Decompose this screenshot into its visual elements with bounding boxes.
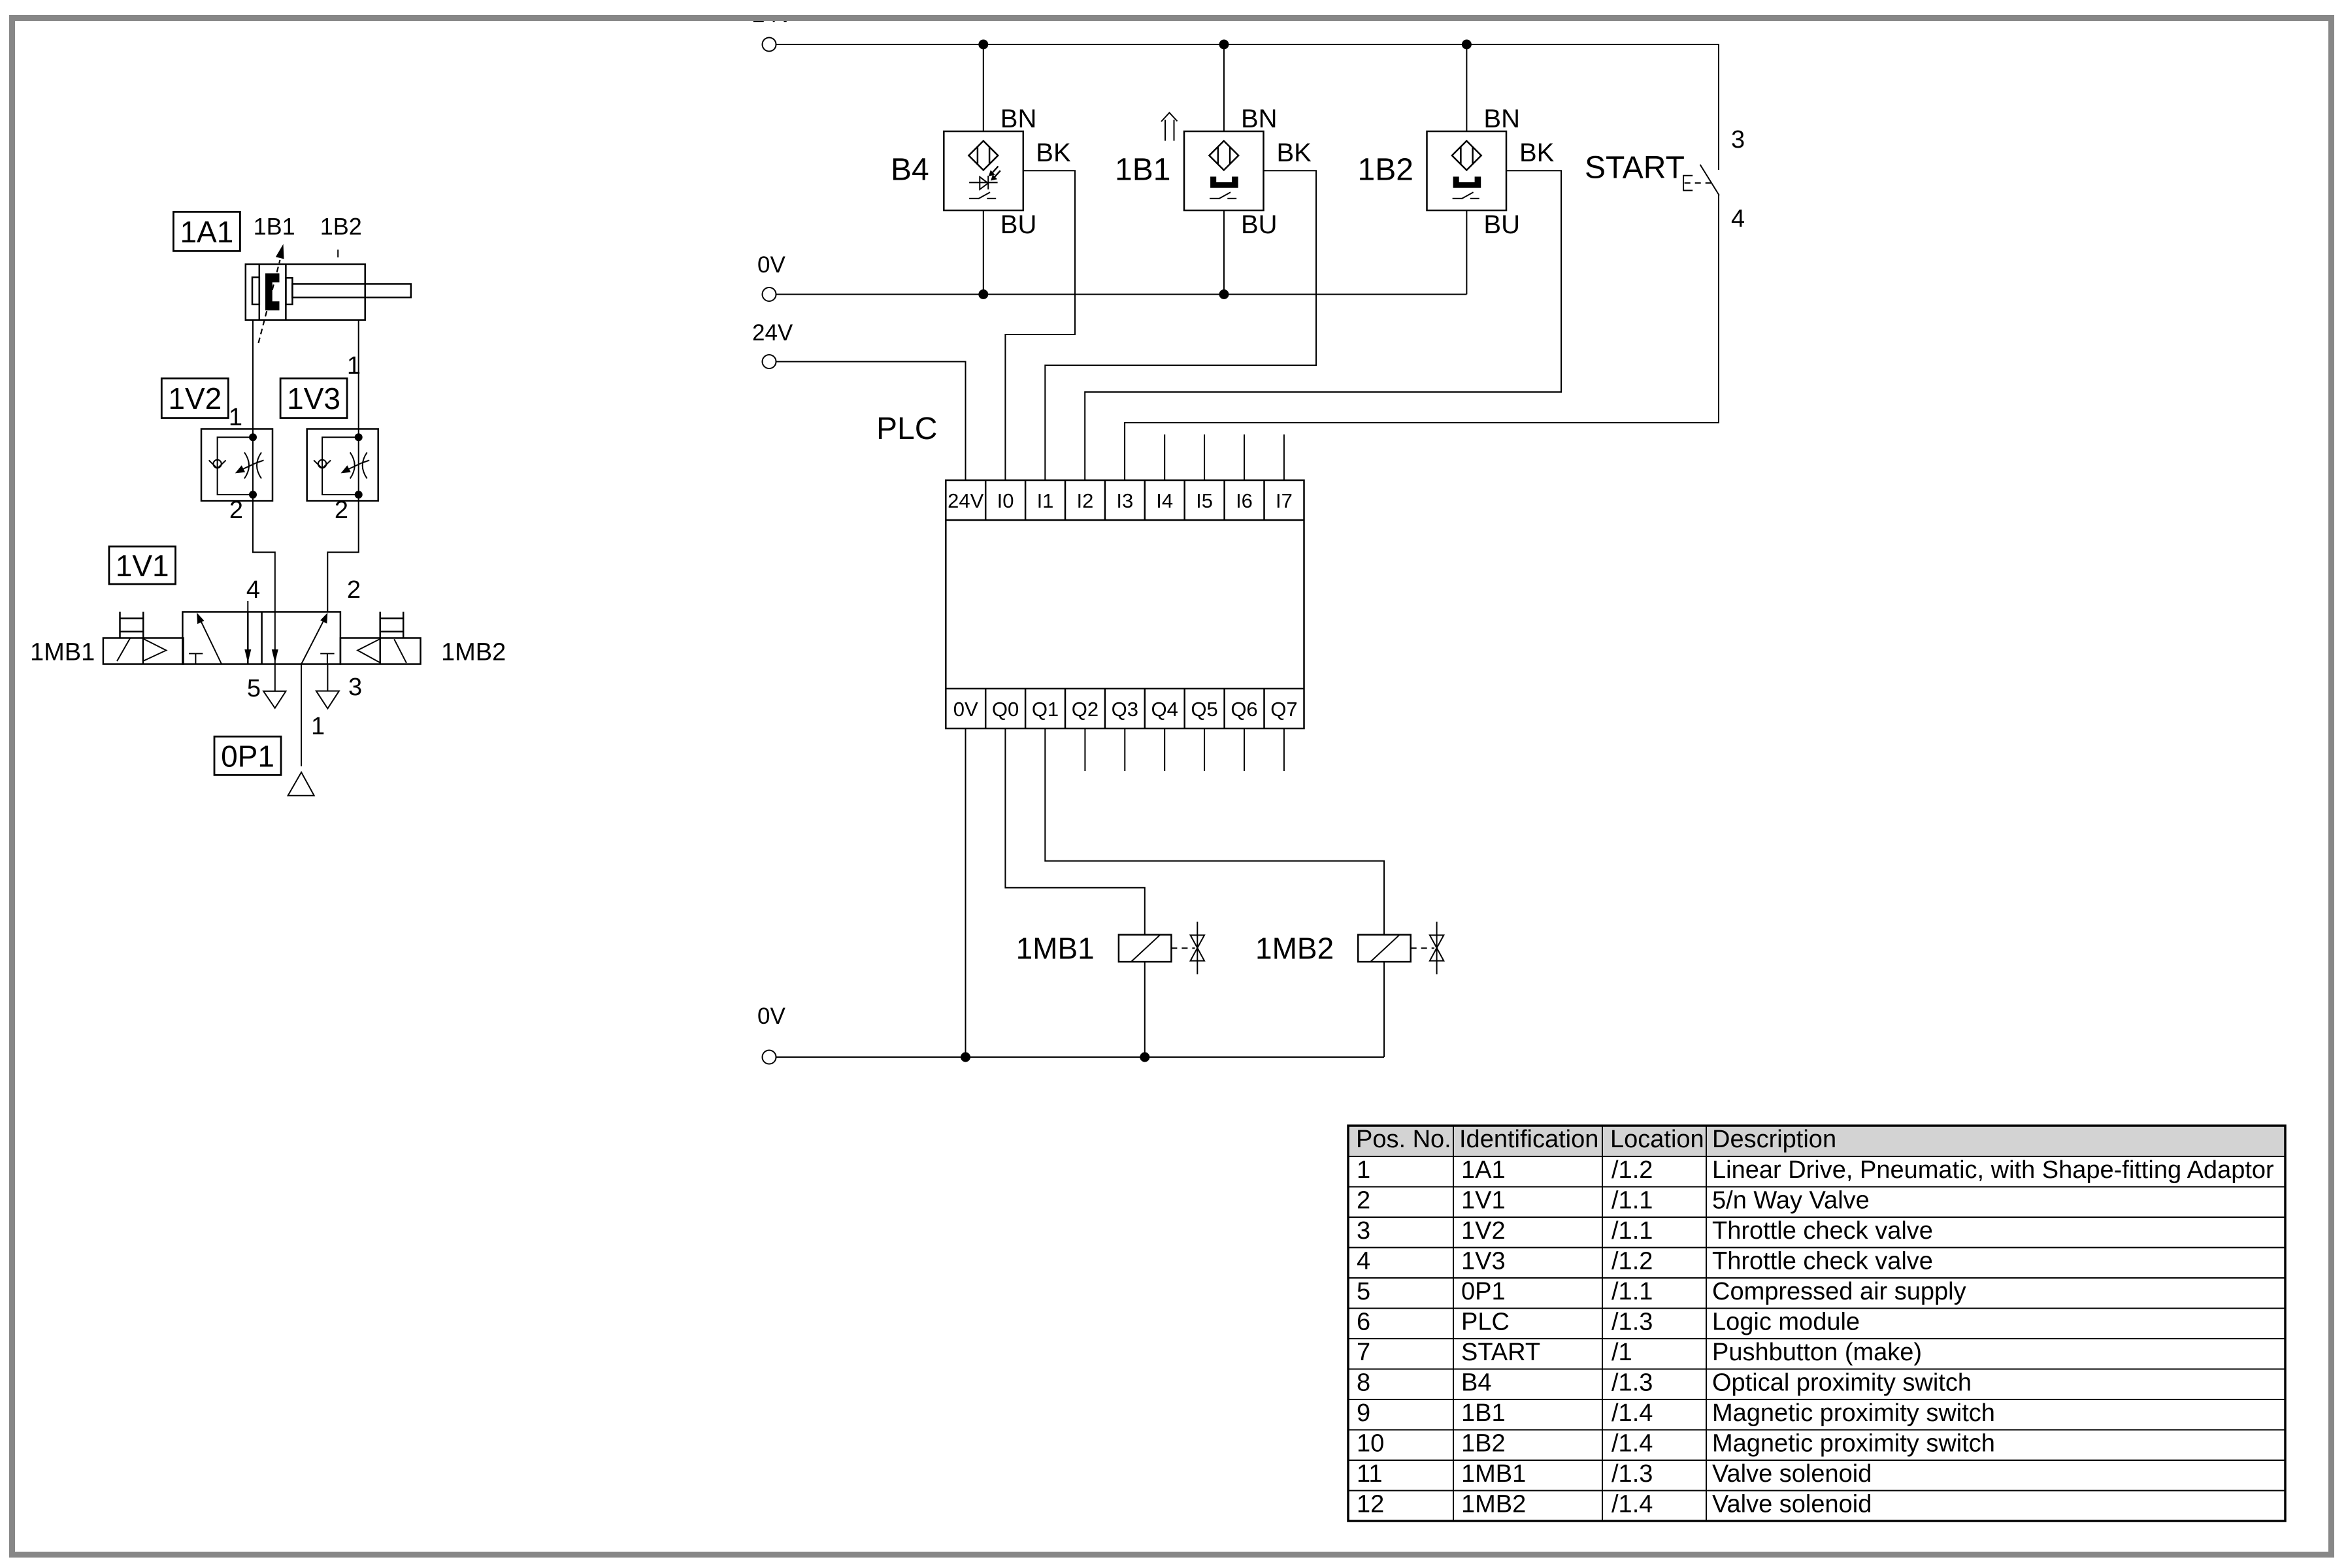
svg-text:Q4: Q4 [1151, 698, 1178, 721]
wire cylinder right port to 1V3 port 1 [358, 320, 359, 429]
svg-text:Valve solenoid: Valve solenoid [1712, 1460, 1872, 1488]
svg-text:/1: /1 [1611, 1339, 1632, 1366]
svg-text:3: 3 [1731, 126, 1745, 154]
svg-text:24V: 24V [752, 320, 793, 346]
24V supply terminal (PLC feed) [763, 355, 776, 368]
svg-text:4: 4 [1731, 205, 1745, 233]
svg-text:5: 5 [247, 675, 261, 702]
svg-text:Compressed air supply: Compressed air supply [1712, 1278, 1966, 1305]
svg-text:I7: I7 [1276, 489, 1293, 512]
pushbutton START contact lever [1700, 165, 1719, 195]
actuation direction arrow at 1B1 [1161, 113, 1178, 141]
svg-text:I5: I5 [1196, 489, 1213, 512]
wire 24V terminal to PLC 24V input [776, 362, 966, 481]
junction 1B1 BN [1219, 40, 1229, 50]
24V rail terminal (top) [763, 38, 776, 52]
cylinder 1A1 body [246, 265, 365, 320]
wire 1B1 BK to PLC I1 [1045, 171, 1316, 480]
0V rail terminal (bottom) [763, 1051, 776, 1064]
svg-text:9: 9 [1357, 1399, 1370, 1427]
wire PLC Q0 to solenoid 1MB1 [1005, 728, 1144, 935]
svg-text:/1.3: /1.3 [1611, 1369, 1653, 1397]
svg-text:BK: BK [1036, 139, 1071, 167]
svg-text:1MB1: 1MB1 [1016, 932, 1095, 966]
junction B4 BU on 0V rail [978, 289, 988, 299]
svg-text:Magnetic proximity switch: Magnetic proximity switch [1712, 1399, 1995, 1427]
svg-text:5: 5 [1357, 1278, 1370, 1305]
throttle check valve 1V2 [201, 429, 273, 501]
svg-text:2: 2 [335, 497, 348, 524]
svg-text:0P1: 0P1 [221, 740, 274, 774]
svg-text:1V3: 1V3 [1461, 1248, 1506, 1275]
svg-text:6: 6 [1357, 1309, 1370, 1336]
valve 1V1 right square flow arrow 1 to 2 [301, 613, 327, 664]
sensor B4 (optical proximity switch) [944, 131, 1023, 210]
svg-text:8: 8 [1357, 1369, 1370, 1397]
svg-text:PLC: PLC [1461, 1309, 1510, 1336]
svg-text:/1.1: /1.1 [1611, 1187, 1653, 1215]
svg-text:B4: B4 [891, 153, 929, 188]
wire 1B1 BU to 0V rail [1223, 210, 1225, 295]
svg-text:1MB2: 1MB2 [441, 639, 506, 666]
svg-text:/1.4: /1.4 [1611, 1491, 1653, 1518]
table row 8: B4 [1357, 1369, 1972, 1397]
svg-text:1V1: 1V1 [116, 549, 169, 583]
PLC Q7 stub [1283, 728, 1285, 771]
svg-text:/1.1: /1.1 [1611, 1217, 1653, 1245]
table row 5: 0P1 [1357, 1278, 1966, 1305]
junction PLC 0V on bottom rail [961, 1053, 970, 1062]
svg-text:1B2: 1B2 [1358, 153, 1413, 188]
svg-text:1V1: 1V1 [1461, 1187, 1506, 1215]
valve solenoid 1MB1 (electrical) [1119, 922, 1204, 975]
svg-text:Q0: Q0 [992, 698, 1019, 721]
svg-text:Q3: Q3 [1112, 698, 1138, 721]
compressed air supply 0P1 [288, 772, 314, 796]
svg-text:0V: 0V [953, 698, 978, 721]
svg-text:1B2: 1B2 [320, 213, 362, 240]
table row 1: 1A1 [1357, 1156, 2274, 1184]
label box 0P1 [214, 736, 281, 775]
label box 1A1 [173, 212, 240, 251]
1B2 position tick [337, 250, 339, 257]
svg-text:10: 10 [1357, 1430, 1384, 1458]
sensor 1B1 (magnetic proximity switch) [1184, 131, 1264, 210]
label box 1V1 [109, 546, 176, 584]
table header row [1356, 1126, 1836, 1153]
svg-text:/1.2: /1.2 [1611, 1248, 1653, 1275]
wire 1V2 port 2 to valve 1V1 port 4 (continues through valve to port 5) [253, 501, 275, 691]
svg-text:/1.4: /1.4 [1611, 1430, 1653, 1458]
svg-text:BU: BU [1000, 210, 1037, 239]
table row 3: 1V2 [1357, 1217, 1933, 1245]
svg-text:BN: BN [1241, 105, 1278, 133]
valve 1V1 left square blocked port T [189, 653, 203, 664]
label box 1V3 [280, 378, 347, 418]
svg-text:12: 12 [1357, 1491, 1384, 1518]
wire 1B2 BN [1466, 44, 1467, 131]
valve 1V1 right square down arrow (4-5 path) [272, 649, 278, 663]
table row 10: 1B2 [1357, 1430, 1995, 1458]
svg-text:/1.3: /1.3 [1611, 1460, 1653, 1488]
wire PLC 0V to bottom 0V rail [965, 728, 966, 1057]
svg-text:/1.3: /1.3 [1611, 1309, 1653, 1336]
svg-text:BU: BU [1483, 210, 1520, 239]
wire cylinder left port to 1V2 port 1 [252, 320, 254, 429]
svg-text:2: 2 [1357, 1187, 1370, 1215]
0V rail terminal [763, 287, 776, 301]
svg-text:0V: 0V [757, 1004, 785, 1029]
svg-text:0P1: 0P1 [1461, 1278, 1506, 1305]
svg-text:1B2: 1B2 [1461, 1430, 1506, 1458]
valve 1V1 port 4 stub [247, 601, 248, 612]
svg-text:1B1: 1B1 [1115, 153, 1170, 188]
svg-text:3: 3 [1357, 1217, 1370, 1245]
svg-text:Pushbutton (make): Pushbutton (make) [1712, 1339, 1922, 1366]
PLC I5 stub [1204, 434, 1205, 480]
wire solenoid 1MB1 to bottom 0V rail [1144, 962, 1146, 1057]
svg-text:Optical proximity switch: Optical proximity switch [1712, 1369, 1972, 1397]
svg-text:/1.4: /1.4 [1611, 1399, 1653, 1427]
svg-text:B4: B4 [1461, 1369, 1491, 1397]
24V rail wire (top) [776, 44, 1719, 170]
cylinder 1A1 piston rod [292, 284, 410, 298]
svg-text:START: START [1585, 151, 1685, 186]
svg-text:Logic module: Logic module [1712, 1309, 1860, 1336]
svg-text:Location: Location [1610, 1126, 1704, 1153]
svg-text:Q1: Q1 [1032, 698, 1059, 721]
svg-text:/1.1: /1.1 [1611, 1278, 1653, 1305]
solenoid 1MB2 pilot (valve right end) [340, 612, 421, 664]
table row 4: 1V3 [1357, 1248, 1933, 1275]
svg-text:1MB2: 1MB2 [1461, 1491, 1526, 1518]
svg-text:1V2: 1V2 [168, 382, 222, 416]
valve 1V1 right square blocked port T [320, 653, 334, 664]
svg-text:Throttle check valve: Throttle check valve [1712, 1217, 1933, 1245]
svg-text:1B1: 1B1 [1461, 1399, 1506, 1427]
svg-text:I6: I6 [1236, 489, 1253, 512]
pushbutton START actuator E with link [1683, 176, 1711, 191]
svg-text:4: 4 [1357, 1248, 1370, 1275]
svg-text:7: 7 [1357, 1339, 1370, 1366]
PLC I7 stub [1283, 434, 1285, 480]
table row 12: 1MB2 [1357, 1491, 1872, 1518]
svg-text:1V2: 1V2 [1461, 1217, 1506, 1245]
junction 1MB1 on bottom rail [1140, 1053, 1149, 1062]
svg-text:1V3: 1V3 [287, 382, 340, 416]
svg-text:1B1: 1B1 [254, 213, 295, 240]
wire 1B1 BN [1223, 44, 1225, 131]
svg-text:BU: BU [1241, 210, 1278, 239]
exhaust silencer port 5 [263, 691, 286, 708]
PLC Q4 stub [1164, 728, 1165, 771]
wire 1V3 port 2 to valve 1V1 port 2 [327, 501, 358, 612]
svg-text:5/n Way Valve: 5/n Way Valve [1712, 1187, 1870, 1215]
svg-text:Throttle check valve: Throttle check valve [1712, 1248, 1933, 1275]
0V rail wire (bottom) [776, 1056, 1385, 1058]
svg-text:2: 2 [229, 497, 243, 524]
svg-text:I4: I4 [1156, 489, 1173, 512]
svg-text:1MB2: 1MB2 [1255, 932, 1334, 966]
svg-text:4: 4 [246, 576, 260, 604]
wire START to PLC I3 [1125, 195, 1719, 480]
cylinder 1A1 cushion seals [252, 278, 292, 304]
svg-text:Q5: Q5 [1191, 698, 1217, 721]
PLC I6 stub [1244, 434, 1245, 480]
svg-text:11: 11 [1357, 1460, 1382, 1488]
svg-text:Linear Drive, Pneumatic, with: Linear Drive, Pneumatic, with Shape-fitt… [1712, 1156, 2274, 1184]
svg-text:Valve solenoid: Valve solenoid [1712, 1491, 1872, 1518]
exhaust silencer port 3 [316, 664, 339, 709]
junction B4 BN [978, 40, 988, 50]
junction 1B2 BN [1462, 40, 1472, 50]
wire solenoid 1MB2 to bottom 0V rail [1383, 962, 1385, 1057]
label box 1V2 [161, 378, 228, 418]
svg-text:1: 1 [229, 404, 242, 431]
svg-text:Description: Description [1712, 1126, 1836, 1153]
PLC Q3 stub [1124, 728, 1125, 771]
PLC Q6 stub [1244, 728, 1245, 771]
valve solenoid 1MB2 (electrical) [1358, 922, 1444, 975]
valve 1V1 left cell down arrow (2-3 path) [244, 649, 251, 663]
svg-text:3: 3 [348, 674, 362, 701]
svg-text:I3: I3 [1116, 489, 1133, 512]
wire B4 BK to PLC I0 [1005, 171, 1075, 480]
svg-text:1: 1 [347, 352, 361, 380]
svg-text:PLC: PLC [876, 412, 937, 446]
0V rail wire [776, 294, 1467, 295]
wire B4 BN [983, 44, 984, 131]
svg-text:/1.2: /1.2 [1611, 1156, 1653, 1184]
svg-text:Magnetic proximity switch: Magnetic proximity switch [1712, 1430, 1995, 1458]
svg-text:Q7: Q7 [1270, 698, 1297, 721]
svg-text:Q6: Q6 [1231, 698, 1257, 721]
svg-text:START: START [1461, 1339, 1540, 1366]
svg-text:Q2: Q2 [1072, 698, 1099, 721]
svg-text:0V: 0V [757, 252, 785, 278]
svg-text:1A1: 1A1 [180, 215, 233, 249]
throttle check valve 1V3 [307, 429, 378, 501]
svg-text:I1: I1 [1037, 489, 1054, 512]
svg-text:1: 1 [311, 713, 325, 740]
svg-text:1MB1: 1MB1 [1461, 1460, 1526, 1488]
1B1 sensor pointer arrow [259, 244, 284, 344]
cylinder 1A1 magnet piston [265, 273, 280, 310]
wire PLC Q1 to solenoid 1MB2 [1045, 728, 1384, 935]
wire valve port 1 to supply 0P1 [301, 664, 302, 766]
valve 1V1 body [182, 612, 340, 664]
svg-text:BK: BK [1277, 139, 1312, 167]
svg-text:24V: 24V [948, 489, 983, 512]
sensor 1B2 (magnetic proximity switch) [1427, 131, 1507, 210]
table row 2: 1V1 [1357, 1187, 1870, 1215]
wire 1B2 BU to 0V rail [1466, 210, 1467, 295]
svg-text:1MB1: 1MB1 [30, 639, 95, 666]
svg-text:BK: BK [1519, 139, 1555, 167]
svg-text:BN: BN [1483, 105, 1520, 133]
solenoid 1MB1 pilot (valve left end) [103, 612, 184, 664]
svg-text:2: 2 [347, 576, 361, 604]
wire 1B2 BK to PLC I2 [1085, 171, 1561, 480]
valve 1V1 left square flow arrow [197, 613, 222, 664]
junction 1B1 BU on 0V rail [1219, 289, 1229, 299]
table row 11: 1MB1 [1357, 1460, 1872, 1488]
table row 9: 1B1 [1357, 1399, 1995, 1427]
svg-text:1A1: 1A1 [1461, 1156, 1506, 1184]
wire B4 BU to 0V rail [983, 210, 984, 295]
table row 7: START [1357, 1339, 1922, 1366]
PLC Q5 stub [1204, 728, 1205, 771]
svg-text:Identification: Identification [1459, 1126, 1598, 1153]
svg-text:Pos. No.: Pos. No. [1356, 1126, 1451, 1153]
svg-text:I0: I0 [997, 489, 1014, 512]
PLC Q2 stub [1084, 728, 1085, 771]
PLC logic module box [946, 480, 1304, 728]
svg-text:1: 1 [1357, 1156, 1370, 1184]
svg-text:BN: BN [1000, 105, 1037, 133]
PLC I4 stub [1164, 434, 1165, 480]
table row 6: PLC [1357, 1309, 1860, 1336]
svg-text:I2: I2 [1076, 489, 1093, 512]
parts list table [1348, 1126, 2285, 1521]
